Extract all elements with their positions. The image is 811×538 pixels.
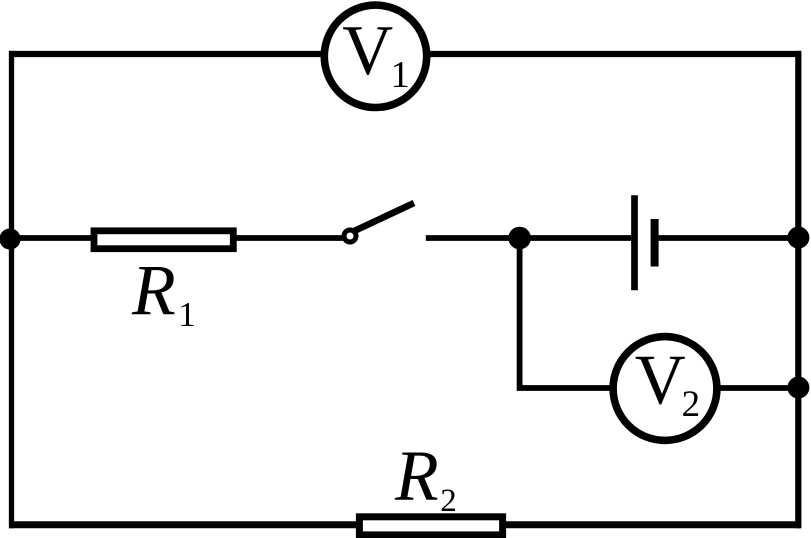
voltmeter V2 — [613, 337, 717, 441]
node: junction dot on right edge at V2 branch — [787, 377, 809, 399]
svg-text:R: R — [394, 437, 439, 516]
node A (junction dot at branch to V2) — [508, 227, 531, 250]
battery: short plate (negative) — [651, 219, 659, 267]
svg-text:1: 1 — [391, 54, 410, 96]
wire: middle branch, left edge to switch — [9, 235, 345, 241]
battery: long plate (positive) — [631, 195, 638, 290]
wire: switch to node A — [426, 235, 525, 241]
switch S (open) : lever — [351, 203, 414, 233]
wire: bottom side of outer loop — [9, 521, 801, 528]
voltmeter V1 — [324, 5, 426, 107]
wire: right side of outer loop — [795, 51, 801, 528]
wire: node A to battery — [520, 235, 632, 241]
resistor R2 — [359, 437, 502, 535]
switch S : pivot circle — [344, 230, 356, 242]
node: junction dot on right edge at battery branch — [787, 227, 809, 249]
wire: voltmeter V2 to right edge — [718, 385, 798, 391]
wire: left side of outer loop — [9, 51, 14, 528]
resistor R1 — [94, 231, 233, 334]
svg-text:2: 2 — [682, 384, 701, 425]
wire: top side of outer loop — [9, 51, 801, 57]
svg-text:1: 1 — [178, 295, 196, 334]
svg-text:V: V — [635, 342, 686, 420]
wire: node A down and right to voltmeter V2 — [520, 238, 612, 388]
svg-text:R: R — [131, 251, 176, 330]
svg-text:2: 2 — [440, 483, 457, 519]
node: junction dot on left edge at R1 branch — [0, 228, 21, 249]
wire: battery to right edge — [659, 235, 798, 241]
svg-text:V: V — [342, 12, 393, 90]
